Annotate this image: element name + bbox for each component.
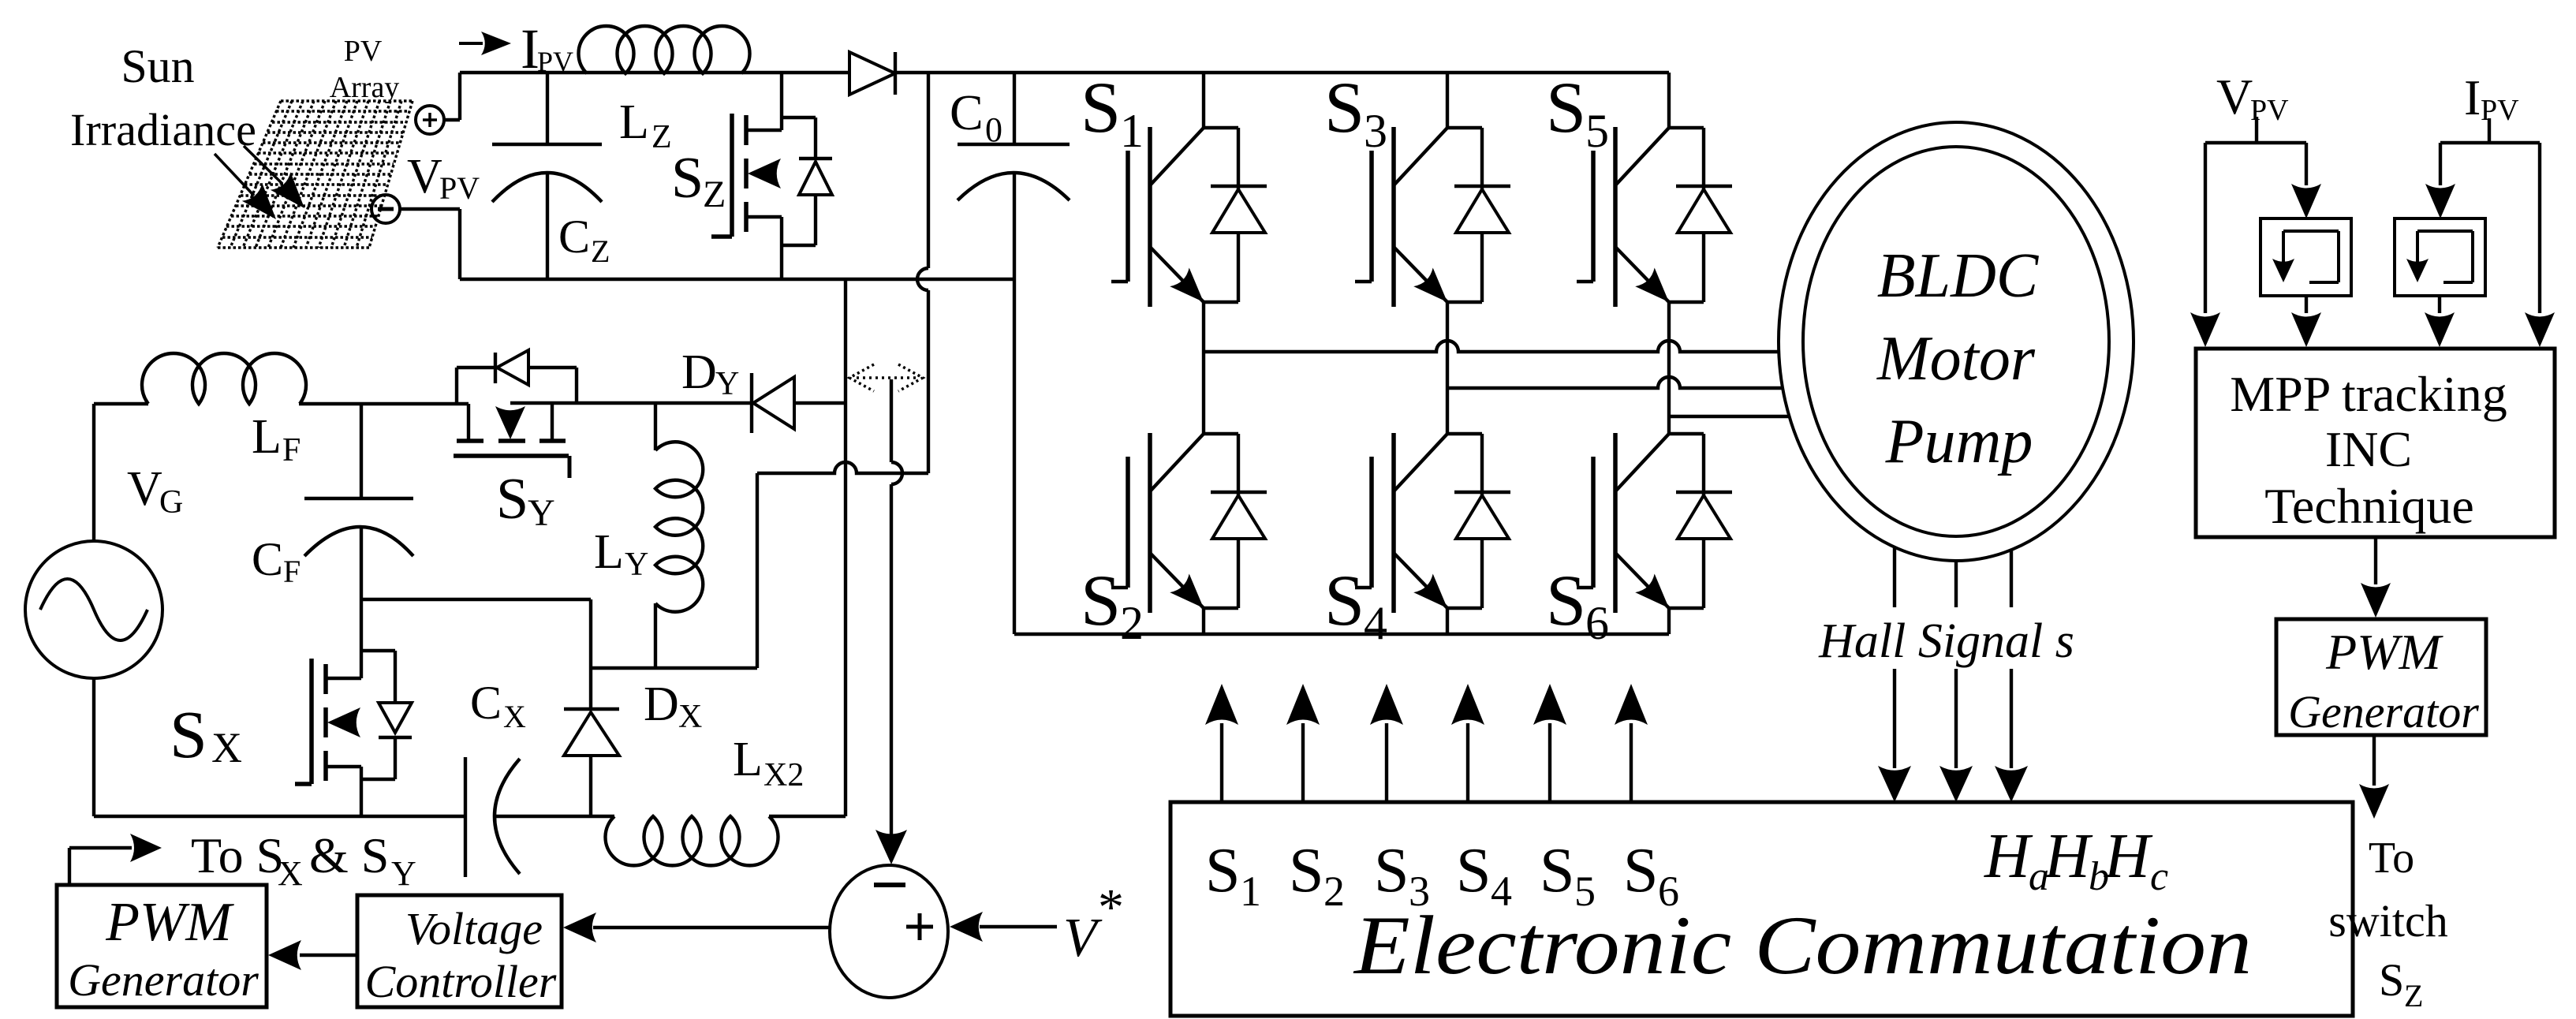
label IPV — [521, 17, 573, 80]
svg-text:S: S — [1374, 836, 1409, 905]
svg-text:BLDC: BLDC — [1877, 241, 2040, 311]
svg-text:V: V — [2216, 69, 2253, 125]
sun irradiance label — [70, 40, 256, 155]
svg-text:S: S — [1081, 67, 1121, 147]
arrow to SX SY — [69, 834, 162, 885]
IGBT S5 — [1577, 73, 1732, 352]
svg-text:2: 2 — [1323, 868, 1345, 915]
arrow VC to PWM — [268, 940, 357, 970]
current arrow IPV — [459, 32, 511, 55]
label EC S1-S6 — [1205, 836, 1679, 915]
wire phase C — [1669, 415, 1790, 418]
label C0 — [950, 84, 1002, 149]
hall signal line c — [1995, 551, 2028, 802]
label S4 — [1324, 560, 1387, 649]
svg-text:Z: Z — [2404, 978, 2423, 1013]
capacitor C0 — [958, 73, 1070, 634]
IGBT S2 — [1111, 352, 1267, 634]
svg-text:C: C — [558, 211, 590, 263]
svg-text:6: 6 — [1585, 597, 1609, 649]
svg-text:Electronic Commutation: Electronic Commutation — [1353, 899, 2252, 991]
svg-text:5: 5 — [1585, 105, 1609, 157]
svg-text:L: L — [594, 525, 624, 579]
BLDC motor pump — [1779, 122, 2134, 561]
svg-text:Y: Y — [528, 492, 555, 534]
svg-text:PWM: PWM — [2325, 624, 2443, 680]
diode SZ body — [782, 118, 832, 245]
svg-text:PV: PV — [439, 170, 480, 206]
wire node horizontal — [591, 666, 757, 670]
svg-text:I: I — [2464, 69, 2481, 125]
svg-text:S: S — [496, 467, 528, 532]
arrow summing to VC — [563, 913, 830, 942]
svg-text:Z: Z — [703, 174, 726, 215]
svg-text:X: X — [503, 699, 526, 734]
svg-text:V: V — [1063, 908, 1103, 969]
svg-text:switch: switch — [2328, 895, 2447, 946]
label Ha Hb Hc — [1984, 822, 2168, 899]
PWM generator box — [57, 885, 267, 1007]
diode SX body — [361, 651, 412, 779]
arrow VPV left — [2190, 143, 2220, 347]
svg-text:Sun: Sun — [121, 40, 194, 92]
svg-text:PV: PV — [537, 46, 573, 77]
svg-text:MPP tracking: MPP tracking — [2230, 366, 2507, 422]
svg-text:X2: X2 — [763, 757, 804, 793]
label Technique — [2264, 478, 2474, 534]
wire top rail right — [895, 71, 1669, 74]
hall signal line a — [1878, 548, 1911, 802]
svg-text:C: C — [470, 677, 502, 729]
svg-text:PV: PV — [2481, 94, 2519, 127]
svg-text:S: S — [2379, 954, 2404, 1006]
label S2 — [1081, 560, 1144, 649]
label VG — [127, 462, 183, 521]
IGBT S3 — [1355, 73, 1510, 352]
label MPP tracking — [2230, 366, 2507, 422]
diode SY body — [457, 350, 577, 404]
wire minus to riser — [400, 207, 460, 211]
svg-text:Array: Array — [330, 71, 400, 104]
diode DX — [564, 599, 619, 816]
svg-text:D: D — [644, 677, 679, 731]
svg-text:To: To — [2369, 834, 2414, 883]
label PWM right — [2325, 624, 2443, 680]
svg-text:V: V — [407, 150, 442, 203]
label SZ — [671, 146, 726, 215]
label S6 — [1546, 560, 1609, 649]
transistor SY drain — [467, 404, 470, 440]
inductor LY — [655, 403, 703, 668]
svg-text:Controller: Controller — [365, 956, 557, 1007]
transistor SX channel — [323, 664, 328, 781]
MPP tracking box — [2196, 349, 2555, 537]
label LZ — [619, 95, 672, 155]
svg-text:S: S — [1540, 836, 1575, 905]
arrow IPV right — [2525, 143, 2555, 347]
PV array label — [330, 35, 400, 104]
svg-text:3: 3 — [1364, 105, 1387, 157]
label Electronic Commutation — [1353, 899, 2252, 991]
transistor SX gate — [295, 659, 312, 784]
summing junction — [830, 865, 948, 998]
svg-text:1: 1 — [1120, 105, 1144, 157]
label Generator right — [2288, 686, 2479, 737]
sun irradiance arrow 2 — [244, 146, 304, 208]
label Hall Signals — [1818, 614, 2074, 668]
capacitor CF — [304, 404, 413, 599]
svg-text:*: * — [1098, 879, 1124, 936]
transistor SZ gate — [711, 114, 732, 237]
svg-text:2: 2 — [1120, 597, 1144, 649]
svg-text:Generator: Generator — [68, 954, 259, 1006]
label DY — [681, 345, 739, 402]
label BLDC — [1877, 241, 2040, 311]
wire plus to riser — [444, 118, 460, 121]
label CX — [470, 677, 526, 734]
wire LF to SY — [299, 402, 469, 405]
transistor SY channel — [457, 439, 566, 443]
label PWM — [105, 892, 234, 953]
wire top rail left — [460, 71, 849, 74]
terminal plus — [416, 106, 444, 134]
svg-text:Y: Y — [625, 547, 648, 583]
svg-text:To S: To S — [191, 827, 284, 883]
transistor SY source — [551, 404, 554, 440]
svg-text:G: G — [159, 484, 183, 521]
voltage controller box — [357, 895, 562, 1007]
label To SX and SY — [191, 827, 416, 893]
svg-text:H: H — [2044, 822, 2093, 891]
transistor SY gate — [454, 456, 569, 478]
wire dc link horizontal — [757, 462, 928, 473]
svg-text:C: C — [252, 533, 283, 585]
wire VG top — [94, 404, 148, 541]
svg-text:S: S — [1546, 67, 1586, 147]
transistor SZ body arrow — [748, 159, 781, 188]
svg-text:X: X — [278, 854, 303, 893]
arrows EC to inverter — [1205, 684, 1648, 802]
svg-text:Motor: Motor — [1876, 324, 2036, 394]
svg-text:& S: & S — [309, 827, 389, 883]
PV array panel — [218, 101, 413, 248]
wire IPV split — [2440, 141, 2540, 144]
inductor LF — [142, 353, 306, 404]
svg-text:Generator: Generator — [2288, 686, 2479, 737]
wire node drop left — [756, 473, 759, 668]
wire VPV stub — [2255, 117, 2258, 143]
svg-text:L: L — [252, 410, 282, 464]
svg-text:Technique: Technique — [2264, 478, 2474, 534]
transistor SX drain — [326, 599, 361, 678]
IGBT S1 — [1111, 73, 1267, 352]
svg-text:L: L — [733, 733, 763, 786]
label SY — [496, 467, 555, 534]
svg-text:0: 0 — [985, 110, 1002, 149]
svg-text:S: S — [1289, 836, 1324, 905]
arrow sensor IPV out — [2425, 296, 2455, 347]
svg-text:L: L — [619, 95, 649, 149]
wire phase A — [1204, 341, 1779, 352]
svg-text:S: S — [1546, 560, 1586, 640]
wire bottom mid — [496, 815, 614, 818]
label S5 — [1546, 67, 1609, 157]
inductor LZ — [578, 26, 749, 73]
label LF — [252, 410, 301, 468]
svg-text:1: 1 — [1240, 868, 1261, 915]
label To switch SZ — [2328, 834, 2447, 1013]
hall signal line b — [1939, 561, 1973, 802]
wire dc minus drop — [844, 279, 847, 816]
svg-text:V: V — [127, 462, 162, 516]
IGBT S4 — [1355, 352, 1510, 634]
PWM generator box right — [2276, 619, 2486, 735]
label CF — [252, 533, 301, 589]
svg-text:Pump: Pump — [1885, 407, 2033, 476]
svg-text:S: S — [1205, 836, 1241, 905]
diode DY — [752, 373, 846, 433]
label LX2 — [733, 733, 804, 793]
wire riser down — [458, 209, 461, 279]
transistor SZ source — [746, 217, 782, 279]
sensor box IPV — [2395, 218, 2485, 296]
label CZ — [558, 211, 610, 269]
svg-text:Y: Y — [715, 366, 739, 402]
svg-text:X: X — [211, 724, 242, 771]
transistor SZ channel — [744, 115, 749, 232]
svg-text:S: S — [1623, 836, 1659, 905]
label VPV sense — [2216, 69, 2289, 127]
wire LX2 corner — [769, 815, 846, 818]
wire bottom rail left — [94, 815, 465, 818]
capacitor CZ — [492, 73, 602, 279]
wire VG bottom — [92, 678, 95, 816]
label Controller — [365, 956, 557, 1007]
label SX — [170, 696, 242, 772]
svg-text:Y: Y — [391, 854, 416, 893]
svg-text:X: X — [678, 699, 702, 735]
arrow sensor VPV out — [2291, 296, 2321, 347]
label INC — [2325, 421, 2412, 477]
svg-text:Irradiance: Irradiance — [70, 104, 256, 155]
svg-text:S: S — [1456, 836, 1491, 905]
svg-text:S: S — [1324, 560, 1365, 640]
label Pump — [1885, 407, 2033, 476]
label S3 — [1324, 67, 1387, 157]
transistor SX body arrow — [327, 707, 360, 737]
svg-text:Z: Z — [651, 119, 672, 155]
label LY — [594, 525, 648, 583]
transistor SZ drain — [746, 73, 782, 130]
wire phase B — [1447, 377, 1783, 388]
electronic commutation box — [1170, 802, 2353, 1016]
arrow into summing minus — [875, 830, 907, 864]
wire riser up — [458, 73, 461, 120]
svg-text:F: F — [283, 554, 301, 589]
arrow VPV right — [2291, 143, 2321, 218]
arrow IPV left — [2425, 143, 2455, 218]
label VPV — [407, 150, 480, 206]
svg-text:S: S — [1081, 560, 1121, 640]
svg-text:c: c — [2150, 854, 2168, 899]
label IPV sense — [2464, 69, 2519, 127]
wire VPV split — [2205, 141, 2306, 144]
transistor SY body arrow — [495, 406, 525, 439]
wire vdc sense — [891, 379, 902, 838]
wire IPV stub — [2488, 118, 2491, 143]
inductor LX2 — [605, 816, 778, 865]
svg-text:S: S — [671, 146, 704, 211]
svg-text:Hall Signal s: Hall Signal s — [1818, 614, 2074, 668]
wire SX top link — [361, 598, 591, 601]
svg-text:S: S — [1324, 67, 1365, 147]
svg-text:Z: Z — [591, 233, 610, 269]
svg-text:H: H — [1984, 822, 2033, 891]
sensor box VPV — [2261, 218, 2351, 296]
label DX — [644, 677, 702, 735]
wire inverter bottom rail — [1014, 633, 1669, 636]
arrow PWM out — [2359, 735, 2389, 819]
svg-text:PV: PV — [344, 35, 383, 68]
arrow MPP to PWM — [2361, 537, 2391, 618]
diode boost — [849, 52, 895, 95]
label Vref — [1063, 879, 1124, 969]
wire dc plus drop — [917, 73, 928, 473]
terminal minus — [371, 195, 400, 223]
transistor SX source — [326, 767, 361, 816]
label S1 — [1081, 67, 1144, 157]
wire zeta bottom rail — [460, 278, 1014, 281]
IGBT S6 — [1577, 352, 1732, 634]
svg-text:F: F — [282, 432, 301, 468]
arrow Vref — [950, 912, 1057, 942]
label Voltage — [405, 903, 543, 954]
svg-text:4: 4 — [1364, 597, 1387, 649]
capacitor CX — [465, 757, 520, 877]
svg-text:H: H — [2104, 822, 2153, 891]
dashed sense arrow — [849, 364, 923, 391]
wire DY cathode — [510, 401, 752, 405]
label Motor — [1876, 324, 2036, 394]
ac source VG — [25, 541, 162, 678]
svg-text:Voltage: Voltage — [405, 903, 543, 954]
svg-text:D: D — [681, 345, 717, 399]
label Generator — [68, 954, 259, 1006]
svg-text:PWM: PWM — [105, 892, 234, 953]
sun irradiance arrow 1 — [215, 154, 276, 219]
svg-text:INC: INC — [2325, 421, 2412, 477]
svg-text:S: S — [170, 696, 207, 772]
svg-text:C: C — [950, 84, 984, 140]
